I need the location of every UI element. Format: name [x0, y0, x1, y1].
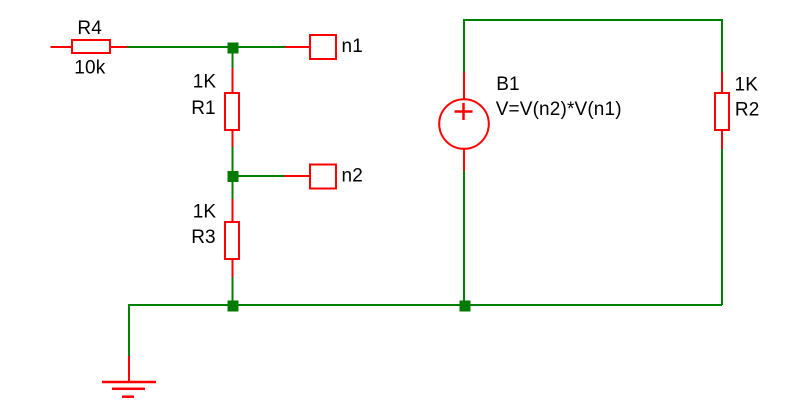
- svg-text:R1: R1: [191, 98, 216, 119]
- svg-text:1K: 1K: [735, 74, 759, 95]
- resistor R2: [715, 72, 729, 149]
- ground: [102, 356, 156, 397]
- wire: [126, 46, 286, 48]
- wire: [463, 19, 465, 73]
- wire: [233, 175, 286, 177]
- svg-text:B1: B1: [496, 74, 520, 95]
- wire: [721, 148, 723, 305]
- resistor R3: [225, 199, 239, 277]
- wire: [464, 19, 722, 21]
- svg-text:n2: n2: [342, 166, 363, 187]
- wire: [129, 304, 722, 306]
- svg-text:R2: R2: [735, 99, 760, 120]
- svg-text:n1: n1: [342, 36, 363, 57]
- node junction (ground net, left): [228, 301, 239, 312]
- svg-text:V=V(n2)*V(n1): V=V(n2)*V(n1): [496, 99, 622, 120]
- svg-text:R4: R4: [77, 18, 102, 39]
- svg-text:1K: 1K: [193, 201, 217, 222]
- svg-text:R3: R3: [191, 227, 216, 248]
- svg-text:10k: 10k: [74, 58, 105, 79]
- resistor R4: [51, 40, 128, 53]
- wire: [232, 146, 234, 177]
- resistor R1: [225, 68, 239, 147]
- wire: [232, 47, 234, 69]
- svg-text:1K: 1K: [193, 72, 217, 93]
- node junction (n2 net): [228, 171, 239, 182]
- wire: [128, 304, 130, 357]
- wire: [232, 182, 234, 200]
- wire: [463, 170, 465, 305]
- source B1: [439, 72, 489, 171]
- wire: [721, 19, 723, 73]
- wire: [232, 277, 234, 306]
- node junction (ground net, middle): [460, 301, 471, 312]
- node junction (n1 net, top): [228, 43, 239, 54]
- terminal n2: [284, 165, 336, 189]
- terminal n1: [285, 35, 336, 59]
